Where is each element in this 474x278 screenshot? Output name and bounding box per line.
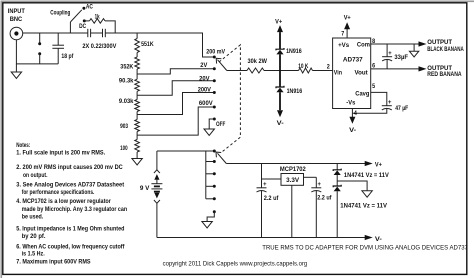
svg-text:33µF: 33µF [394, 54, 408, 61]
diode D3 zener 1N4741 [333, 164, 389, 187]
switch gang dashed link [219, 45, 240, 153]
svg-text:3.3V: 3.3V [286, 177, 300, 184]
open jumper J2 on input [38, 33, 41, 64]
resistor R7 100 [120, 140, 139, 153]
ground input [11, 64, 21, 79]
power V- arrow rail [365, 235, 382, 243]
notes text block [16, 142, 127, 266]
resistor R1 1k [84, 13, 115, 33]
op-amp U1 AD737 [327, 38, 371, 109]
svg-text:OUTPUT: OUTPUT [427, 39, 452, 46]
svg-text:AC: AC [86, 4, 93, 11]
output BLACK BANANA label [427, 39, 464, 53]
svg-text:made by Microchip. Any 3.3 reg: made by Microchip. Any 3.3 regulator can [22, 206, 127, 213]
svg-text:BLACK BANANA: BLACK BANANA [427, 46, 464, 53]
svg-text:8: 8 [372, 38, 375, 45]
svg-text:47 µF: 47 µF [395, 105, 408, 112]
svg-text:Vin: Vin [334, 70, 342, 77]
pin 6 Vout output wire [371, 62, 427, 71]
svg-text:DC: DC [79, 23, 86, 30]
svg-text:9 V: 9 V [140, 185, 150, 192]
svg-text:551K: 551K [141, 41, 154, 48]
resistor R2 551K [135, 33, 154, 57]
capacitor C3 18 pf [52, 33, 74, 64]
svg-text:V+: V+ [275, 19, 282, 26]
svg-text:+Vs: +Vs [338, 42, 349, 49]
svg-text:9.03k: 9.03k [119, 98, 134, 105]
svg-text:on output.: on output. [23, 172, 48, 179]
svg-text:10 K: 10 K [298, 63, 308, 70]
svg-text:1k: 1k [95, 13, 100, 20]
svg-text:2: 2 [327, 64, 330, 71]
svg-text:TRUE RMS TO DC ADAPTER FOR DVM: TRUE RMS TO DC ADAPTER FOR DVM USING ANA… [262, 245, 468, 252]
power V- arrow clamp [277, 110, 284, 127]
svg-text:copyright 2011 Dick Cappels w: copyright 2011 Dick Cappels www.projects… [163, 260, 308, 267]
svg-text:BNC: BNC [10, 16, 23, 23]
switch S2b wiper [216, 152, 226, 163]
svg-text:Vout: Vout [355, 70, 369, 77]
svg-text:1N916: 1N916 [286, 48, 302, 55]
svg-text:20V: 20V [199, 75, 210, 82]
svg-text:1N4741 Vz = 11V: 1N4741 Vz = 11V [340, 203, 387, 210]
svg-text:by 20 pf.: by 20 pf. [22, 233, 46, 240]
wire 600V tap [137, 107, 214, 135]
pin 5 Cavg wire [371, 83, 387, 106]
wire V- rail [157, 237, 365, 239]
wire input line [23, 32, 88, 34]
svg-text:600V: 600V [199, 100, 213, 107]
svg-text:MCP1702: MCP1702 [280, 166, 306, 173]
svg-text:2V: 2V [200, 62, 208, 69]
resistor R4 90.3k [119, 78, 139, 100]
svg-text:2.2 uf: 2.2 uf [264, 195, 279, 202]
diode D2 1N916 [276, 86, 302, 110]
svg-text:5. Input impedance is 1 Meg Oh: 5. Input impedance is 1 Meg Ohm shunted [16, 225, 124, 232]
resistor R6 903 [120, 120, 139, 140]
svg-text:for performance specifications: for performance specifications. [22, 189, 95, 196]
diode D1 1N916 [276, 48, 302, 87]
ground output common [409, 44, 418, 57]
svg-text:200V: 200V [198, 87, 212, 94]
switch S2a wiper [216, 58, 227, 70]
capacitor C6 2.2uf [257, 164, 280, 238]
svg-text:Coupling: Coupling [50, 9, 70, 16]
pin 8 Com output wire [371, 38, 427, 47]
svg-text:1N4741 Vz = 11V: 1N4741 Vz = 11V [344, 172, 389, 179]
ground OFF contact pole 1 [204, 119, 214, 135]
svg-text:90.3k: 90.3k [119, 78, 134, 85]
resistor R5 9.03k [119, 98, 139, 120]
svg-text:7. Maximum input 600V RMS: 7. Maximum input 600V RMS [16, 258, 91, 265]
svg-text:4. MCP1702 is a low power regu: 4. MCP1702 is a low power regulator [16, 198, 111, 205]
svg-text:200 mV: 200 mV [206, 49, 225, 56]
ground OFF contact pole 2 [202, 212, 214, 228]
capacitor C1 C2 2X 0.22/300V [82, 29, 117, 50]
capacitor C4 33uF [382, 44, 408, 69]
title text [262, 245, 468, 252]
capacitor C7 2.2uf [311, 177, 332, 237]
power V+ arrow rail [365, 161, 382, 169]
svg-text:Com: Com [357, 41, 370, 48]
resistor R9 10 K [298, 63, 332, 73]
switch S2a range contacts [198, 49, 226, 128]
switch S1a Coupling [50, 4, 93, 34]
wire 20V tap [137, 81, 214, 96]
svg-text:V-: V- [277, 120, 284, 127]
svg-text:is 1.5 Hz.: is 1.5 Hz. [22, 250, 45, 257]
copyright text [163, 260, 308, 267]
svg-text:+: + [388, 99, 392, 106]
regulator U2 MCP1702 [262, 166, 317, 237]
svg-text:2X 0.22/300V: 2X 0.22/300V [82, 43, 117, 50]
svg-text:-Vs: -Vs [346, 100, 355, 107]
svg-text:Notes:: Notes: [16, 142, 30, 149]
resistor R3 352K [120, 57, 139, 79]
svg-text:7: 7 [341, 30, 344, 37]
svg-text:18 pf: 18 pf [61, 53, 74, 60]
wire 2V tap [137, 69, 214, 74]
svg-text:Cavg: Cavg [355, 91, 369, 98]
svg-text:+: + [263, 181, 267, 188]
switch S2b power contacts bus [206, 150, 216, 214]
svg-text:V+: V+ [344, 15, 351, 22]
connector J1 INPUT BNC [8, 8, 25, 40]
svg-text:1. Full scale input is 200 mv: 1. Full scale input is 200 mv RMS. [16, 150, 105, 157]
svg-text:AD737: AD737 [343, 57, 363, 64]
svg-text:6: 6 [372, 62, 375, 69]
wire V+ rail [226, 163, 365, 165]
pin 7 +Vs to V+ [341, 15, 351, 38]
svg-text:100: 100 [120, 145, 128, 152]
svg-text:352K: 352K [120, 63, 133, 70]
resistor R8 30k 2W [227, 58, 299, 73]
ground divider chain [132, 152, 142, 165]
svg-text:be used.: be used. [22, 213, 44, 220]
output RED BANANA label [427, 65, 461, 78]
svg-text:903: 903 [120, 123, 128, 130]
svg-text:6. When AC coupled, low freque: 6. When AC coupled, low frequency cutoff [16, 243, 125, 250]
battery B1 9V [140, 151, 163, 238]
svg-text:+: + [388, 50, 392, 57]
svg-text:3. See Analog Devices AD737 Da: 3. See Analog Devices AD737 Datasheet [16, 182, 125, 189]
power V+ arrow clamp [275, 19, 283, 50]
wire battery to power switch [157, 150, 214, 152]
pin 4 -Vs to V- [349, 109, 357, 134]
svg-text:+: + [318, 181, 322, 188]
svg-text:INPUT: INPUT [8, 8, 25, 15]
svg-text:RED BANANA: RED BANANA [427, 71, 461, 78]
wire 200V tap [137, 93, 214, 115]
svg-text:30k 2W: 30k 2W [248, 58, 268, 65]
svg-text:5: 5 [372, 83, 375, 90]
capacitor C5 47uF [352, 99, 408, 113]
diode D4 zener 1N4741 [333, 185, 387, 238]
ground zener midpoint [337, 181, 372, 197]
svg-text:1N916: 1N916 [287, 88, 303, 95]
svg-text:OFF: OFF [216, 121, 225, 128]
wire input ground bus [16, 40, 58, 64]
svg-text:2. 200 mV RMS input causes 200: 2. 200 mV RMS input causes 200 mv DC [16, 164, 123, 171]
svg-text:V+: V+ [375, 162, 382, 169]
svg-text:4: 4 [354, 110, 357, 117]
svg-text:2.2 uf: 2.2 uf [317, 195, 332, 202]
svg-text:V-: V- [375, 236, 382, 243]
svg-text:V-: V- [349, 127, 356, 134]
wire input line to attenuator [105, 33, 214, 57]
